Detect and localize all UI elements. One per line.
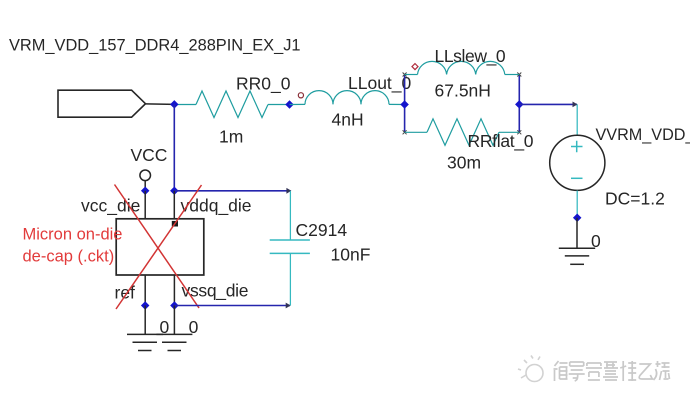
svg-text:10nF: 10nF [331,244,371,264]
wire end arrow tick at cap bottom [286,303,291,309]
VCC node circle [140,170,151,181]
junction node right of parallel branch [515,100,524,109]
ground 0 of source [559,248,595,264]
branch left vertical wire [404,75,406,133]
junction node 1 [170,100,179,109]
pin wire vddq_die [173,191,175,219]
pin marker circle of LLout_0 [298,93,303,98]
source bottom lead [576,191,578,218]
watermark logo icon [518,356,543,382]
red cross-out line 2 [116,185,202,309]
resistor RRflat_0 right lead [499,131,519,133]
pin wire vssq_die (bottom right) [173,275,175,306]
inductor LLslew_0 right lead [505,74,520,76]
corner pin cross bottom-left [403,130,407,134]
pin marker diamond of LLslew_0 [412,64,418,70]
inductor LLslew_0 [418,61,505,74]
svg-text:Micron on-die: Micron on-die [23,225,123,243]
svg-text:DC=1.2: DC=1.2 [605,188,665,208]
wire node1 lead to resistor RR0_0 [174,104,196,106]
svg-text:LLslew_0: LLslew_0 [435,46,506,67]
svg-text:LLout_0: LLout_0 [348,73,412,94]
voltage source VVRM_VDD circle [550,135,605,190]
svg-text:4nH: 4nH [332,109,364,129]
svg-text:vddq_die: vddq_die [181,195,252,216]
svg-text:C2914: C2914 [296,220,348,240]
capacitor C2914 top lead [289,191,291,240]
svg-text:de-cap (.ckt): de-cap (.ckt) [23,247,115,265]
svg-text:RR0_0: RR0_0 [236,73,291,94]
svg-text:VCC: VCC [131,145,168,165]
junction node 2 (vddq) [170,187,179,196]
component box Micron die model [116,219,204,275]
svg-text:vcc_die: vcc_die [81,195,140,216]
wire from connector to node 1 [146,103,175,106]
junction node after RR0_0 [285,100,294,109]
pin1 marker square [172,221,178,227]
branch right vertical wire [518,75,520,133]
svg-text:0: 0 [591,231,601,251]
svg-text:30m: 30m [447,153,481,173]
svg-text:1m: 1m [219,126,243,146]
wire vssq to capacitor bottom [174,305,290,307]
source minus sign [571,177,583,179]
watermark text 信号完整性之旅 [554,361,670,381]
source plus sign [571,141,583,153]
svg-text:VRM_VDD_157_DDR4_288PIN_EX_J1: VRM_VDD_157_DDR4_288PIN_EX_J1 [9,37,301,55]
source top lead [576,104,578,135]
pin node vcc_die [141,187,150,196]
wire node1 down to node2 [173,104,175,190]
connector J1 port symbol [58,90,146,117]
wire node2 to capacitor C2914 [174,190,290,192]
resistor RRflat_0 left lead [405,131,427,133]
svg-text:VVRM_VDD_1: VVRM_VDD_1 [596,126,690,144]
svg-text:RRflat_0: RRflat_0 [468,131,534,152]
capacitor C2914 top plate [270,239,310,241]
ground stem of source [576,218,578,248]
pin wire ref (bottom left) [144,275,146,306]
capacitor C2914 bottom lead [289,253,291,305]
wire VCC circle to pin [144,181,146,191]
resistor RRflat_0 [427,119,499,146]
wire from branch to source VVRM_VDD [519,103,577,105]
corner pin cross top-right [517,73,521,77]
svg-text:67.5nH: 67.5nH [435,80,491,100]
inductor LLout_0 [305,91,389,105]
pin node ref [141,301,150,310]
svg-text:0: 0 [189,317,199,337]
wire end arrow tick [573,102,578,108]
inductor LLout_0 right lead [389,103,405,105]
ground 0 left [127,334,163,350]
junction node below source [573,214,582,223]
resistor RR0_0 [196,91,268,118]
corner pin cross bottom-right [517,130,521,134]
resistor RR0_0 right lead [268,104,290,106]
corner pin cross top-left [403,73,407,77]
pin wire vcc_die [144,191,146,219]
pin node vssq [170,301,179,310]
inductor LLout_0 left lead [290,103,306,105]
red cross-out line 1 [115,185,200,309]
junction node left of parallel branch [400,100,409,109]
inductor LLslew_0 left lead [405,74,418,76]
ground stem ref [144,306,146,335]
capacitor C2914 bottom plate [270,252,310,254]
wire end arrow tick at capacitor top [286,188,291,194]
ground stem vssq [173,306,175,335]
ground 0 right [156,334,192,350]
